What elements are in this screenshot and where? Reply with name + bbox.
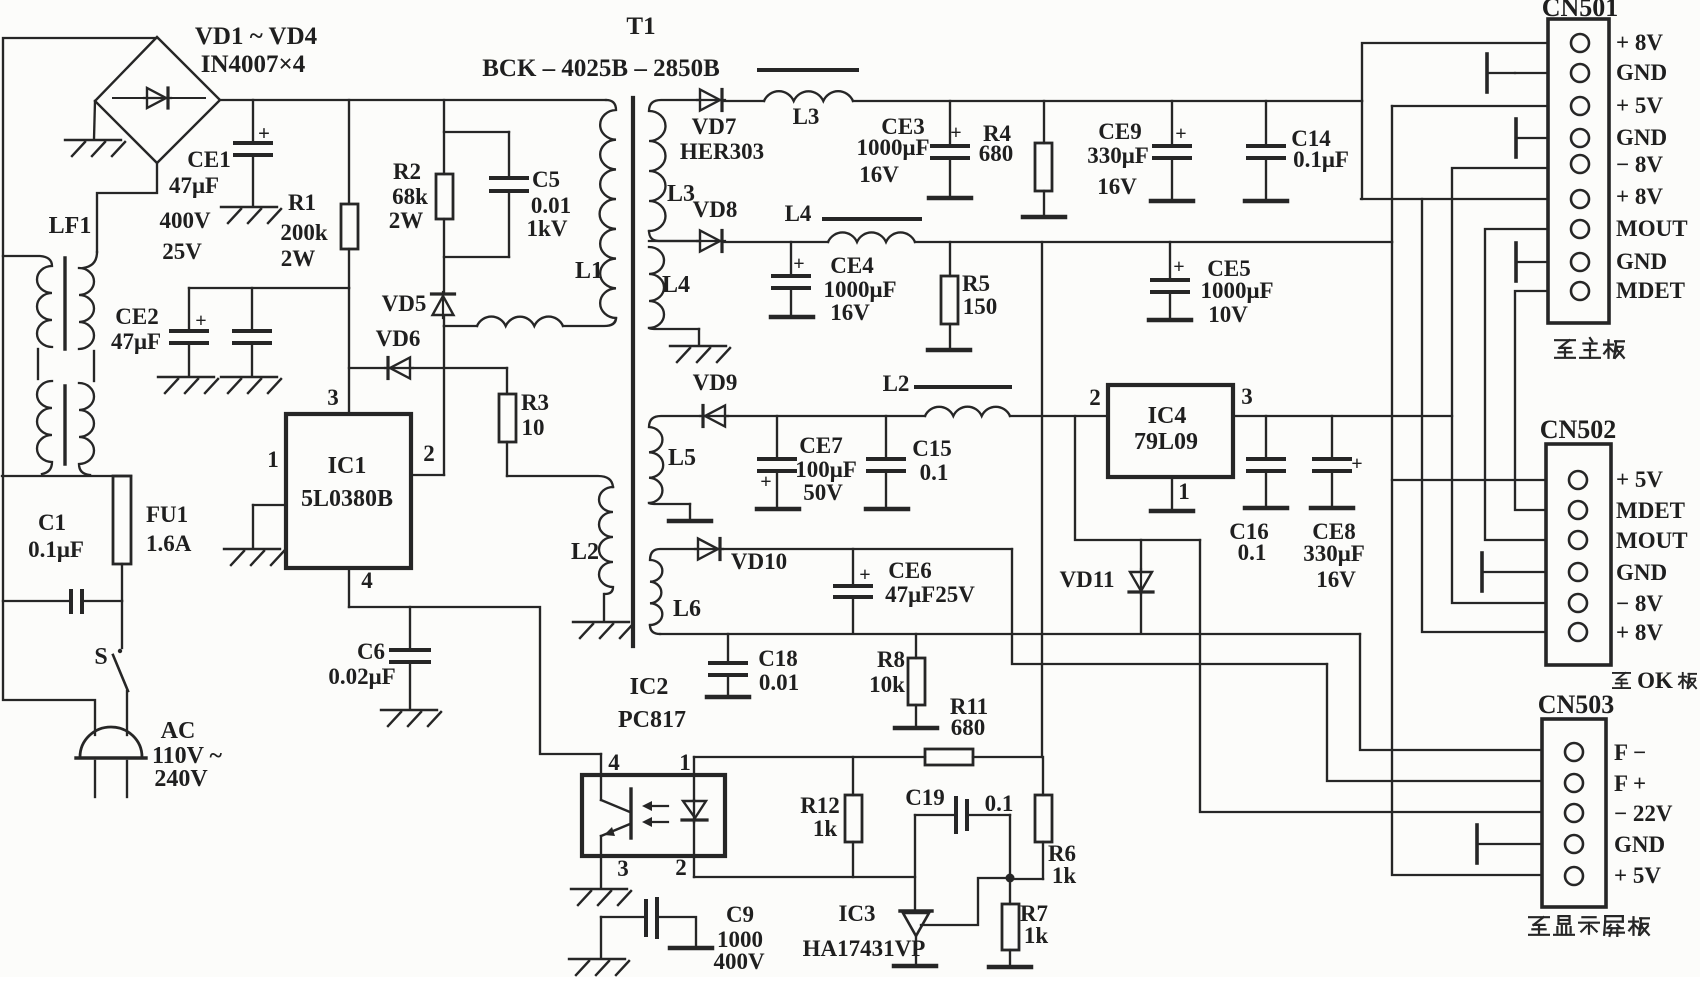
svg-text:330μF: 330μF [1087,143,1149,168]
svg-text:1.6A: 1.6A [146,531,192,556]
svg-text:GND: GND [1616,560,1667,585]
svg-text:10: 10 [522,415,545,440]
svg-text:50V: 50V [803,480,843,505]
diode VD8 [649,240,700,242]
ground bar below C18 [707,695,749,700]
capacitor C14 [1265,101,1267,144]
ground bar below CE7 [757,507,799,512]
ground bar below CE8 [1311,506,1353,511]
svg-text:+: + [195,310,206,332]
svg-text:+: + [760,471,771,493]
svg-text:VD9: VD9 [693,370,738,395]
capacitor C1 [3,600,70,602]
svg-text:L6: L6 [673,596,701,622]
svg-text:GND: GND [1616,60,1667,85]
transformer secondary winding L6 [650,549,698,625]
svg-text:L2: L2 [883,371,910,396]
svg-text:R5: R5 [962,271,990,296]
capacitor CE8 [1331,416,1333,457]
svg-text:CE1: CE1 [187,147,230,172]
ground bar below C15 [866,507,908,512]
svg-text:2: 2 [423,441,435,466]
label zhi-xian-shi-ping-ban (to display board) [1529,917,1549,935]
ground at IC1 pin 1 [224,549,284,565]
svg-text:2: 2 [1089,385,1101,410]
svg-text:CN503: CN503 [1538,690,1615,719]
ground at CN501 GND pin8 [1514,243,1518,281]
connector CN502 [1546,444,1611,665]
svg-text:16V: 16V [830,300,870,325]
svg-text:1000μF: 1000μF [1200,278,1273,303]
svg-text:F +: F + [1614,771,1646,796]
pin 3 of IC2 [600,836,602,888]
svg-text:16V: 16V [1097,174,1137,199]
svg-text:150: 150 [963,294,998,319]
diode VD7 [697,90,725,111]
svg-text:47μF25V: 47μF25V [885,582,975,607]
diode VD11 [1140,540,1142,571]
light arrows inside IC2 [642,801,668,827]
connector CN501 [1548,19,1609,323]
wire IC2 pin2 to IC3 cathode [694,876,915,878]
ground bar below CE3 [929,196,971,201]
resistor R2 [443,100,445,174]
wire IC4 output rail [1233,415,1452,417]
diode VD10 [695,539,723,560]
capacitor C9 [600,917,602,958]
svg-text:LF1: LF1 [49,213,92,239]
svg-text:R12: R12 [800,793,840,818]
svg-text:CN501: CN501 [1542,0,1619,22]
pin 1 of IC1 [253,504,286,506]
core bar above L2 choke [916,385,1010,389]
core bar above L4 choke [824,217,920,221]
svg-text:3: 3 [327,385,339,410]
svg-text:F −: F − [1614,740,1646,765]
wire -22V branch from rail3 [1075,416,1200,540]
svg-text:CN502: CN502 [1540,415,1617,444]
wire +5V net [1392,105,1548,107]
capacitor beside CE2 [251,288,253,330]
svg-text:10k: 10k [869,672,905,697]
svg-text:CE7: CE7 [799,433,842,458]
ground bar below C9 right [670,946,712,951]
svg-text:240V: 240V [154,766,208,792]
svg-text:− 22V: − 22V [1614,801,1673,826]
svg-text:C18: C18 [758,646,798,671]
svg-text:GND: GND [1614,832,1665,857]
ground bar below C14 [1245,199,1287,204]
svg-text:400V: 400V [159,208,211,233]
capacitor C18 [727,634,729,661]
svg-text:25V: 25V [162,239,202,264]
capacitor C5 [508,132,510,176]
capacitor C6 [409,607,411,648]
ground below capacitor [221,377,281,393]
transformer secondary winding L3 [649,100,700,231]
svg-text:IC1: IC1 [328,453,367,479]
diode VD5 [432,292,455,318]
svg-text:+: + [258,121,270,145]
svg-text:CE4: CE4 [830,253,874,278]
svg-text:C15: C15 [912,436,952,461]
line filter LF1 right winding [83,252,97,268]
svg-text:HER303: HER303 [680,139,764,164]
wire -8V net [1452,168,1548,603]
svg-text:+: + [1175,123,1186,145]
wire F+ source rail from VD10 [722,548,1012,550]
wire bridge bottom vertex to LF1 right winding [97,163,157,252]
ground bar below C16 [1245,506,1287,511]
svg-text:L4: L4 [662,272,690,298]
svg-text:0.1μF: 0.1μF [1293,147,1349,172]
svg-text:PC817: PC817 [618,707,686,733]
wire +5V to CN502 [1392,479,1546,481]
ground below L4 winding [698,329,700,344]
transformer secondary winding L5 [649,416,700,503]
wire R3 to primary winding L2 [507,476,613,487]
AC plug [80,727,142,757]
svg-text:1000μF: 1000μF [856,135,929,160]
svg-text:IC4: IC4 [1148,403,1187,429]
transformer primary winding L1 [600,100,616,318]
resistor R6 [1042,757,1044,795]
IC IC4 79L09 [1108,385,1233,477]
resistor R11 [925,749,973,765]
wire CE2 top rail [189,287,349,289]
svg-text:400V: 400V [713,949,765,974]
wire MDET net [1515,291,1548,510]
bridge inner wire [113,97,205,99]
ground below CE1 [221,207,281,223]
capacitor CE1 [252,100,254,142]
svg-text:1k: 1k [813,816,838,841]
svg-text:T1: T1 [626,13,655,40]
svg-text:+ 5V: + 5V [1616,467,1663,492]
svg-text:S: S [94,644,107,670]
capacitor CE6 [852,549,854,584]
ground at bridge left vertex [94,101,95,139]
svg-text:3: 3 [617,856,629,881]
wire main HV rail [220,99,606,101]
ground bar below IC3 [894,964,936,969]
svg-text:CE2: CE2 [115,304,158,329]
ground bar below L5 [689,504,691,518]
svg-text:1kV: 1kV [527,216,568,241]
capacitor CE2 [188,288,190,330]
svg-text:2: 2 [675,855,687,880]
wire PC817 pin1 to R11 to R6 [694,756,925,758]
svg-text:C1: C1 [38,510,66,535]
wire -9V rail [727,415,925,417]
diode VD9 [700,406,728,427]
svg-text:5L0380B: 5L0380B [301,486,393,512]
svg-text:L2: L2 [571,539,599,565]
svg-text:1k: 1k [1024,923,1049,948]
svg-text:+ 8V: + 8V [1616,184,1663,209]
wire C19 right to R6 junction [1009,815,1011,876]
svg-text:+: + [950,122,961,144]
svg-text:16V: 16V [1316,567,1356,592]
svg-text:BCK – 4025B – 2850B: BCK – 4025B – 2850B [482,55,720,82]
ground at CN501 GND pin2 [1487,54,1515,92]
svg-text:+: + [859,564,870,586]
svg-text:IC3: IC3 [838,901,875,926]
svg-text:MOUT: MOUT [1616,216,1688,241]
inductor L4 choke [828,232,915,242]
svg-text:2W: 2W [389,208,424,233]
ground below CE2 [158,377,218,393]
wire R6 sense line from +5V rail [1041,242,1043,757]
wire +8V rail [724,100,764,102]
svg-text:VD7: VD7 [692,114,737,139]
wire VD5 to primary bottom with loops [443,316,445,326]
pin 2 of IC2 [693,822,695,877]
ground at CN503 GND pin [1477,825,1542,863]
svg-text:MOUT: MOUT [1616,528,1688,553]
svg-text:C19: C19 [905,785,945,810]
svg-text:10V: 10V [1208,302,1248,327]
wire VD5-VD6 vertical to IC1 pin 2 [443,326,445,475]
core bar above L3 choke [759,68,857,72]
wire +8V branch to CN502 [1422,199,1546,632]
optocoupler IC2 PC817 [582,775,725,856]
pin 1 of IC2 [693,757,695,800]
svg-text:79L09: 79L09 [1134,429,1198,455]
svg-text:VD1 ~ VD4: VD1 ~ VD4 [195,23,318,50]
ground bar below R8 [895,726,937,731]
switch S [121,601,123,648]
IC IC1 5L0380B [286,414,411,568]
svg-text:+: + [793,253,804,275]
svg-text:0.1: 0.1 [920,460,949,485]
svg-text:47μF: 47μF [169,173,219,198]
resistor R3 [506,368,508,394]
wire R2-C5 top bracket [444,131,509,133]
ground below C6 [381,710,441,726]
svg-text:0.1μF: 0.1μF [28,537,84,562]
svg-text:+: + [1351,453,1362,475]
svg-text:VD8: VD8 [693,197,738,222]
diode VD6 [349,367,385,369]
capacitor C15 [885,416,887,457]
capacitor C16 [1265,416,1267,457]
capacitor CE7 [776,416,778,457]
svg-text:1k: 1k [1052,863,1077,888]
svg-text:+ 5V: + 5V [1614,863,1661,888]
svg-text:1: 1 [679,750,691,775]
svg-text:R1: R1 [288,190,316,215]
resistor R4 [1043,101,1045,143]
ground below C9 left [569,959,629,975]
phototransistor inside IC2 [629,789,632,838]
wire IC1 pin4 feedback line [349,607,601,754]
svg-text:MDET: MDET [1616,278,1685,303]
wire +5V output rail [724,241,828,243]
svg-text:GND: GND [1616,125,1667,150]
LED inside IC2 [693,800,695,822]
svg-text:R2: R2 [393,159,421,184]
ground bar below CE4 [771,315,813,320]
svg-text:330μF: 330μF [1303,541,1365,566]
svg-text:0.01: 0.01 [759,670,799,695]
wire MOUT net [1485,229,1548,540]
svg-text:68k: 68k [392,184,428,209]
resistor R12 [852,757,854,795]
pin wires CN501 [1515,73,1548,262]
svg-text:47μF: 47μF [111,329,161,354]
capacitor CE4 [790,242,792,274]
pin 4 of IC2 [600,754,602,800]
svg-text:− 8V: − 8V [1616,152,1663,177]
svg-text:− 8V: − 8V [1616,591,1663,616]
pin 1 of IC4 [1171,477,1173,509]
ground bar below R4 [1023,215,1065,220]
resistor R5 [949,242,951,276]
ground at IC2 pin3 [571,889,631,905]
ground below primary L2 [573,622,633,638]
bridge inner diode [144,88,171,108]
wire R2-C5 bottom bracket [444,256,509,258]
svg-text:4: 4 [608,750,620,775]
transformer core [631,98,635,646]
LF1 core [63,258,66,349]
svg-text:680: 680 [951,715,986,740]
ground bar below IC4 pin1 [1151,509,1193,514]
ground at CN502 GND pin [1482,553,1546,591]
wire AC line top (bridge top vertex to left edge down to LF1) [3,38,157,735]
wire IC3 reference to junction [921,878,1006,925]
node R6-R7 junction [1006,874,1015,883]
svg-text:2W: 2W [281,246,316,271]
svg-text:IN4007×4: IN4007×4 [201,51,306,78]
svg-text:L5: L5 [668,445,696,471]
ground bar below CE5 [1149,318,1191,323]
svg-text:IC2: IC2 [630,674,669,700]
svg-text:1: 1 [267,447,279,472]
wire +8V net to CN501 [1362,43,1548,101]
svg-text:4: 4 [361,568,373,593]
svg-text:VD10: VD10 [731,549,787,574]
svg-text:+: + [1173,256,1184,278]
svg-text:0.02μF: 0.02μF [328,664,395,689]
pin 4 of IC1 [348,568,350,607]
connector CN503 [1542,719,1606,907]
svg-text:VD5: VD5 [382,291,427,316]
capacitor CE3 [949,101,951,144]
svg-text:100μF: 100μF [795,457,857,482]
fuse FU1 [113,476,131,564]
wire F- rail from L6 bottom [660,633,1360,635]
capacitor CE5 [1169,242,1171,278]
svg-text:L3: L3 [667,181,695,207]
svg-text:MDET: MDET [1616,498,1685,523]
svg-text:FU1: FU1 [146,502,188,527]
svg-text:C9: C9 [726,902,754,927]
svg-text:680: 680 [979,141,1014,166]
ground bar below R7 [989,965,1031,970]
svg-text:OK: OK [1637,668,1673,693]
svg-text:C6: C6 [357,639,385,664]
svg-text:CE9: CE9 [1098,119,1141,144]
shunt regulator IC3 HA17431VP [900,909,932,912]
svg-text:1000μF: 1000μF [823,277,896,302]
svg-text:VD11: VD11 [1060,567,1115,592]
svg-text:R8: R8 [877,647,905,672]
svg-text:0.01: 0.01 [531,193,571,218]
svg-text:+ 8V: + 8V [1616,30,1663,55]
svg-text:HA17431VP: HA17431VP [803,936,926,961]
bridge rectifier VD1~VD4 diamond [95,37,220,163]
svg-text:1: 1 [1178,479,1190,504]
svg-text:GND: GND [1616,249,1667,274]
svg-text:0.1: 0.1 [985,791,1014,816]
svg-text:C5: C5 [532,167,560,192]
svg-text:R3: R3 [521,390,549,415]
ground at CN501 GND pin4 [1514,119,1518,157]
svg-text:+ 8V: + 8V [1616,620,1663,645]
ground bar below CE9 [1151,199,1193,204]
inductor L3 choke [764,91,853,101]
capacitor CE9 [1171,101,1173,144]
svg-text:3: 3 [1241,384,1253,409]
wire C19 left to IC3 cathode [914,815,916,911]
pin 3 of IC1 [348,288,350,414]
line filter LF1 left winding [3,256,52,347]
svg-text:+ 5V: + 5V [1616,93,1663,118]
wire LF1 bottom rail [2,475,131,477]
svg-text:16V: 16V [859,162,899,187]
label zhi OK ban (to OK board) [1613,673,1630,688]
svg-text:VD6: VD6 [376,326,421,351]
ground bar below R5 [928,348,970,353]
resistor R1 [348,100,350,204]
svg-text:L4: L4 [785,201,812,226]
svg-text:L1: L1 [575,258,603,284]
transformer primary winding L2 [599,487,613,594]
resistor R7 [1009,880,1011,904]
inductor L2 choke [925,407,1010,416]
svg-text:AC: AC [161,718,196,744]
svg-text:CE6: CE6 [888,558,931,583]
label zhi-zhu-ban (to mainboard) [1555,340,1575,358]
svg-text:0.1: 0.1 [1238,540,1267,565]
svg-text:200k: 200k [280,220,328,245]
transformer secondary winding L4 [649,247,664,328]
svg-text:L3: L3 [793,104,820,129]
resistor R8 [915,634,917,658]
capacitor C19 [915,814,955,816]
